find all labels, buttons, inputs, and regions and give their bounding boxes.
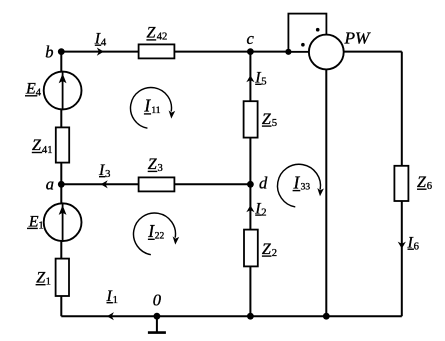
svg-text:b: b xyxy=(45,43,53,62)
svg-text:33: 33 xyxy=(301,183,311,193)
svg-text:22: 22 xyxy=(155,231,165,241)
svg-text:c: c xyxy=(247,29,255,48)
svg-text:11: 11 xyxy=(151,106,160,116)
svg-text:Z: Z xyxy=(262,111,272,128)
svg-text:5: 5 xyxy=(272,118,277,129)
svg-text:4: 4 xyxy=(36,88,42,99)
svg-text:Z: Z xyxy=(148,156,158,173)
svg-text:Z: Z xyxy=(417,174,427,191)
svg-text:6: 6 xyxy=(427,181,432,192)
svg-text:PW: PW xyxy=(344,29,372,48)
svg-text:42: 42 xyxy=(157,32,168,43)
svg-text:1: 1 xyxy=(46,277,51,288)
svg-text:d: d xyxy=(259,174,268,193)
svg-text:1: 1 xyxy=(38,220,43,231)
svg-text:3: 3 xyxy=(105,169,110,180)
svg-text:5: 5 xyxy=(261,77,266,88)
svg-text:1: 1 xyxy=(113,295,118,306)
svg-text:6: 6 xyxy=(414,241,419,252)
svg-text:I: I xyxy=(143,96,151,116)
svg-text:0: 0 xyxy=(153,291,162,310)
svg-text:2: 2 xyxy=(272,248,277,259)
svg-text:Z: Z xyxy=(147,25,157,42)
svg-text:3: 3 xyxy=(158,163,163,174)
svg-text:2: 2 xyxy=(261,207,266,218)
svg-text:Z: Z xyxy=(262,241,272,258)
svg-text:Z: Z xyxy=(32,137,42,154)
svg-text:I: I xyxy=(293,173,301,193)
svg-text:4: 4 xyxy=(101,37,107,48)
svg-text:41: 41 xyxy=(42,145,53,156)
svg-text:a: a xyxy=(46,174,54,193)
